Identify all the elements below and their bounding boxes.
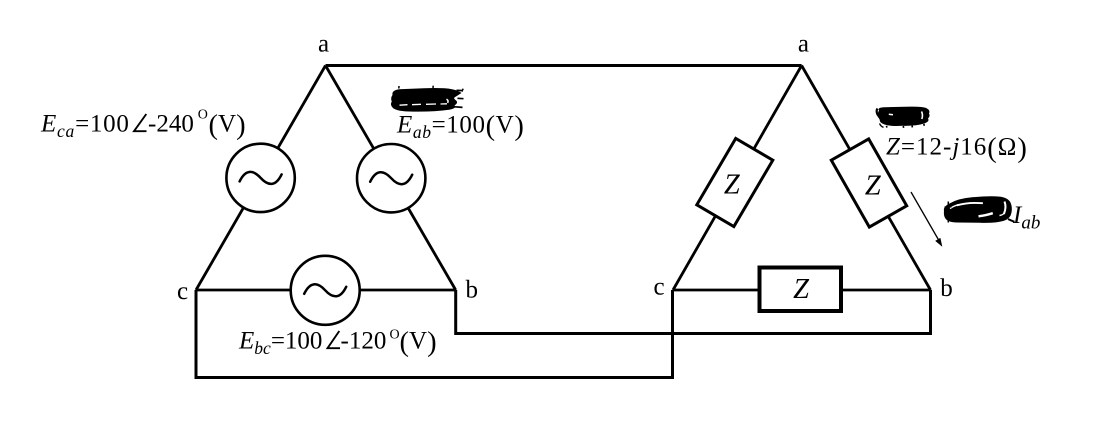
svg-text:Z=12-j16(Ω): Z=12-j16(Ω) (886, 133, 1028, 164)
svg-text:Z: Z (793, 274, 810, 305)
wire source c to load c (196, 290, 673, 378)
wire source bottom c-b (196, 289, 456, 292)
wire top a-a (326, 64, 802, 67)
svg-text:O: O (198, 107, 208, 122)
svg-text:Ebc=100: Ebc=100 (238, 328, 322, 359)
svg-text:c: c (177, 278, 188, 305)
redaction scribble above E_ab (391, 86, 464, 112)
svg-text:b: b (465, 277, 478, 304)
redaction scribble left of I_ab (944, 196, 1015, 223)
wire source b to load b (456, 290, 931, 334)
svg-text:(V): (V) (400, 327, 437, 358)
wire load right edge a-b (802, 66, 931, 291)
label E_ca=100angle-240O(V) (40, 107, 246, 141)
arrow current direction I_ab (911, 192, 942, 247)
svg-text:a: a (798, 31, 809, 58)
svg-text:-240: -240 (148, 111, 194, 138)
svg-text:O: O (390, 328, 400, 343)
svg-text:c: c (653, 274, 664, 301)
impedance Z (a-c branch, rotated box) (697, 138, 773, 226)
impedance Z (c-b branch, box) (760, 268, 842, 312)
wire source left edge a-c (196, 66, 326, 291)
svg-text:Z: Z (865, 170, 882, 201)
label E_bc=100angle-120O(V) (238, 327, 437, 358)
source E_bc circle (291, 256, 360, 325)
impedance Z (a-b branch, rotated box) (831, 139, 906, 227)
wire source right edge a-b (326, 66, 456, 291)
redaction scribble above Z label (877, 107, 930, 128)
wire load bottom c-b (673, 289, 931, 292)
svg-text:b: b (940, 275, 953, 302)
svg-text:Z: Z (724, 170, 741, 201)
wire load left edge a-c (673, 66, 802, 291)
svg-text:(V): (V) (209, 110, 246, 141)
svg-text:a: a (318, 31, 329, 58)
source E_ab circle (357, 144, 425, 212)
source E_ca circle (226, 144, 294, 212)
svg-text:-120: -120 (341, 328, 387, 355)
svg-text:Eca=100: Eca=100 (40, 111, 130, 142)
